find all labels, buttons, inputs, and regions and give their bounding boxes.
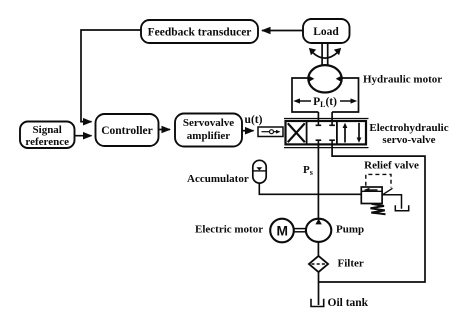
svg-text:PL(t): PL(t) xyxy=(313,96,337,109)
relief valve outlet wire xyxy=(382,195,402,209)
svg-text:Controller: Controller xyxy=(101,125,153,137)
wire feedback loop: transducer to controller xyxy=(81,30,141,122)
label Relief valve xyxy=(364,160,419,172)
label u(t) xyxy=(245,114,263,126)
svg-text:reference: reference xyxy=(25,136,69,148)
svg-text:Pump: Pump xyxy=(336,224,364,236)
box Servovalve amplifier xyxy=(175,114,242,147)
wire valve port B to motor loop xyxy=(331,112,333,121)
servo valve crossed arrows (left square X) xyxy=(288,123,305,142)
relief valve body xyxy=(361,187,392,204)
relief valve pilot dashed lines xyxy=(366,174,391,187)
svg-text:Hydraulic motor: Hydraulic motor xyxy=(363,74,442,86)
box Signal reference xyxy=(20,122,75,149)
wire valve port A to motor loop xyxy=(317,112,319,121)
label Electric motor xyxy=(195,224,263,236)
svg-text:servo-valve: servo-valve xyxy=(382,134,435,146)
svg-text:Filter: Filter xyxy=(338,258,364,270)
torque motor of servo valve xyxy=(258,127,283,137)
label Pump xyxy=(336,224,364,236)
box Feedback transducer xyxy=(141,20,258,43)
wire Load to Feedback transducer xyxy=(262,30,303,32)
hydraulic motor shaft xyxy=(322,43,328,66)
servo valve right square flow arrows xyxy=(343,123,362,143)
box Controller xyxy=(96,114,159,146)
accumulator xyxy=(253,160,266,183)
filter xyxy=(309,256,328,272)
relief valve drain tank xyxy=(395,205,408,211)
svg-text:Load: Load xyxy=(313,26,339,38)
label Oil tank xyxy=(328,297,369,309)
wire Signal reference to Controller xyxy=(75,135,92,137)
box Load xyxy=(303,19,350,43)
wire u(t) amplifier to servo valve xyxy=(242,130,254,132)
label PL(t) with double arrow xyxy=(293,96,357,109)
label Ps xyxy=(303,164,313,177)
svg-text:Feedback transducer: Feedback transducer xyxy=(148,27,252,39)
svg-text:Signal: Signal xyxy=(33,124,62,136)
servo valve centre square blocked ports xyxy=(316,121,335,144)
oil tank xyxy=(311,299,324,307)
svg-text:M: M xyxy=(276,224,288,239)
electric motor M xyxy=(270,219,294,243)
svg-text:Electrohydraulic: Electrohydraulic xyxy=(369,122,448,134)
motor loop piping xyxy=(292,78,359,112)
wire Controller to Servovalve amplifier xyxy=(159,129,171,131)
svg-text:Electric motor: Electric motor xyxy=(195,224,263,236)
relief valve spring xyxy=(371,204,386,214)
wire pump to filter xyxy=(317,242,319,256)
label Filter xyxy=(338,258,364,270)
servo valve bottom thin line xyxy=(284,147,369,149)
svg-text:u(t): u(t) xyxy=(245,114,263,126)
coupling motor to pump xyxy=(293,229,306,232)
svg-text:Accumulator: Accumulator xyxy=(187,173,249,185)
svg-text:Relief valve: Relief valve xyxy=(364,160,419,172)
pump xyxy=(306,219,331,242)
wire pressure line valve to pump xyxy=(317,144,319,219)
svg-text:amplifier: amplifier xyxy=(187,130,230,142)
hydraulic motor xyxy=(308,65,341,92)
wire filter to oil tank xyxy=(318,272,320,305)
rotation arrows on shaft xyxy=(309,48,341,58)
servo valve top thin line xyxy=(284,118,369,120)
servo valve body xyxy=(286,121,367,144)
wire accumulator to pressure line and relief valve xyxy=(259,183,361,194)
wire return line valve to tank junction xyxy=(319,144,426,282)
label Electrohydraulic servo-valve xyxy=(369,122,448,146)
label Accumulator xyxy=(187,173,249,185)
svg-text:Oil tank: Oil tank xyxy=(328,297,369,309)
label Hydraulic motor xyxy=(363,74,442,86)
svg-text:Servovalve: Servovalve xyxy=(183,117,234,129)
